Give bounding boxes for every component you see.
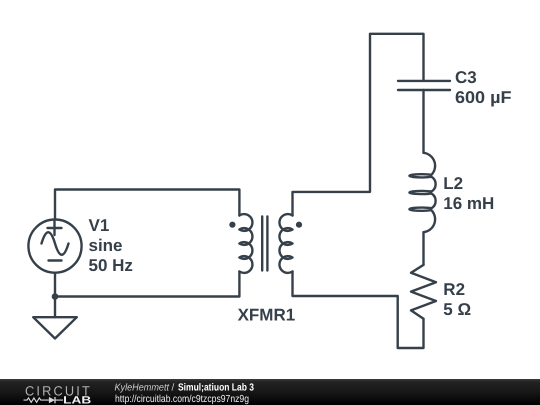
svg-text:KyleHemmett: KyleHemmett [115,383,171,394]
resistor R2 [411,265,436,319]
svg-text:50 Hz: 50 Hz [89,256,133,275]
svg-text:600 µF: 600 µF [455,88,512,107]
transformer secondary polarity dot [296,222,302,228]
footer bar [0,379,540,405]
V1 sine wave [42,232,69,255]
inductor L2 [409,153,435,232]
svg-text:5 Ω: 5 Ω [443,300,471,319]
svg-text:LAB: LAB [63,395,92,405]
svg-text:16 mH: 16 mH [443,194,494,213]
voltage source V1 circle [28,220,81,273]
wire L2 to R2 [422,232,424,265]
V1 minus sign [49,259,62,261]
capacitor C3 plates [398,81,450,90]
svg-text:V1: V1 [89,216,110,235]
junction node at V1 bottom [52,293,59,300]
wire secondary top to C3 [293,34,424,216]
svg-text:sine: sine [89,236,123,255]
ground [33,317,77,338]
logo squiggle wire [24,397,64,403]
wire ground stem [54,297,56,318]
wire top-left: V1 top to XFMR1 primary top [55,190,239,220]
wire bottom-left: V1 bottom to XFMR1 primary bottom [55,272,239,297]
svg-text:Simul;atiuon Lab 3: Simul;atiuon Lab 3 [178,383,254,394]
transformer core lines [262,217,267,271]
svg-text:R2: R2 [443,280,465,299]
svg-text:/: / [172,383,175,394]
transformer U primary winding [239,214,252,273]
svg-text:L2: L2 [443,174,463,193]
V1 plus sign [48,221,62,235]
wire R2 bottom back to secondary bottom [293,272,424,349]
transformer primary polarity dot [229,222,235,228]
logo diode triangle [49,397,55,403]
svg-text:C3: C3 [455,68,477,87]
transformer secondary winding [279,214,292,273]
wire C3 to L2 [422,90,424,153]
svg-text:http://circuitlab.com/c9tzcps9: http://circuitlab.com/c9tzcps97nz9g [115,394,249,405]
svg-text:XFMR1: XFMR1 [238,305,296,324]
